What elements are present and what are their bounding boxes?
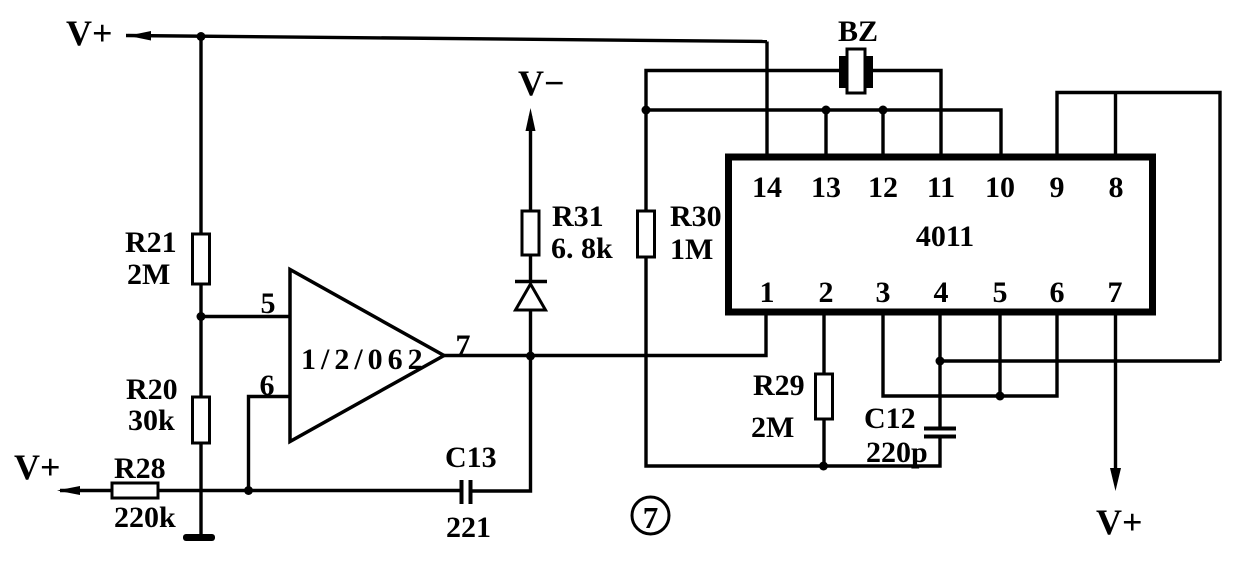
wire right rail to pin 4 node <box>940 359 1220 362</box>
diode D1 cathode bar <box>515 280 547 283</box>
svg-text:6: 6 <box>260 369 275 402</box>
wire V+ rail down to 4011 pin 14 <box>765 42 768 155</box>
wire from V+ rail down to R21 <box>199 37 202 235</box>
svg-text:6. 8k: 6. 8k <box>551 232 613 265</box>
svg-text:2M: 2M <box>751 411 794 444</box>
junction pin 12 <box>879 106 888 115</box>
wire pin 3 to pins 5 6 link <box>883 312 1057 396</box>
wire to pin 13 <box>824 110 827 154</box>
svg-text:2M: 2M <box>127 258 170 291</box>
wire diode to output node to C13 <box>472 310 531 491</box>
wire pin 2 to R29 <box>822 312 825 374</box>
svg-text:8: 8 <box>1109 171 1124 204</box>
svg-text:13: 13 <box>811 171 841 204</box>
svg-text:3: 3 <box>876 276 891 309</box>
junction pin 4 line <box>936 357 945 366</box>
resistor R31 <box>522 211 539 255</box>
svg-text:1: 1 <box>760 276 775 309</box>
wire R21 to R20 <box>199 284 202 397</box>
svg-text:11: 11 <box>927 171 955 204</box>
svg-text:5: 5 <box>261 287 276 320</box>
wire R28 to C13 <box>158 489 460 492</box>
wire pin 5 down <box>998 312 1001 396</box>
svg-text:6: 6 <box>1050 276 1065 309</box>
wire pin 7 to V+ with down arrowhead <box>1110 312 1121 491</box>
wire BZ right to 4011 pin 11 <box>872 71 941 155</box>
junction R30 line with 4011 inputs rail <box>642 106 651 115</box>
svg-text:10: 10 <box>985 171 1015 204</box>
resistor R29 <box>816 374 833 419</box>
junction pin 5 <box>996 392 1005 401</box>
svg-text:BZ: BZ <box>838 15 878 48</box>
svg-text:9: 9 <box>1050 171 1065 204</box>
wire V− with up arrowhead <box>526 108 536 211</box>
svg-text:C12: C12 <box>864 402 916 435</box>
svg-text:4: 4 <box>934 276 949 309</box>
buzzer BZ <box>839 49 873 93</box>
IC U2 4011 body <box>729 157 1153 312</box>
junction on V+ rail <box>197 32 206 41</box>
svg-text:R21: R21 <box>125 226 177 259</box>
ground <box>183 534 215 541</box>
svg-text:R28: R28 <box>114 452 166 485</box>
svg-text:V−: V− <box>518 63 565 103</box>
wire V+ feed with left arrowhead <box>57 486 112 495</box>
svg-text:220p: 220p <box>866 436 928 469</box>
svg-text:R31: R31 <box>552 200 604 233</box>
resistor R30 <box>638 211 655 257</box>
svg-text:12: 12 <box>868 171 898 204</box>
figure number circled 7 <box>632 497 669 535</box>
junction pin 13 <box>822 106 831 115</box>
svg-text:C13: C13 <box>445 441 497 474</box>
wire rail to pins 13 12 10 <box>646 110 1001 154</box>
wire R31 to diode <box>529 255 532 282</box>
wire R30 bottom to R29/C12 bottom rail <box>646 257 940 466</box>
junction at pin5 tap <box>197 312 206 321</box>
svg-text:V+: V+ <box>1096 502 1143 542</box>
junction R29 bottom <box>819 462 828 471</box>
svg-text:R30: R30 <box>670 200 722 233</box>
svg-text:220k: 220k <box>114 501 176 534</box>
junction output with diode branch <box>526 352 535 361</box>
svg-text:R20: R20 <box>126 373 178 406</box>
svg-text:7: 7 <box>643 500 659 535</box>
wire to pin 12 <box>881 110 884 154</box>
svg-text:R29: R29 <box>753 369 805 402</box>
svg-text:V+: V+ <box>66 13 113 53</box>
resistor R20 <box>193 397 210 443</box>
svg-text:1M: 1M <box>670 233 713 266</box>
wire V+ top rail with left arrowhead <box>126 31 767 42</box>
svg-text:14: 14 <box>752 171 782 204</box>
svg-text:4011: 4011 <box>916 220 974 253</box>
capacitor C12 plates <box>924 429 956 437</box>
wire R20 to ground <box>199 443 202 535</box>
svg-text:5: 5 <box>993 276 1008 309</box>
svg-text:1/2/062: 1/2/062 <box>301 343 428 376</box>
wire to op-amp pin 5 <box>201 315 290 318</box>
junction at pin6 tap <box>244 486 253 495</box>
svg-text:30k: 30k <box>128 404 175 437</box>
svg-text:V+: V+ <box>14 447 61 487</box>
wire R29 to bottom rail <box>822 419 825 466</box>
wire R30 top branch to BZ <box>646 71 841 212</box>
resistor R21 <box>193 234 210 284</box>
svg-text:221: 221 <box>446 511 491 544</box>
wire up to op-amp pin 6 <box>249 397 291 491</box>
wire pin 4 to C12 <box>938 312 941 429</box>
op-amp U1 1/2/062 <box>290 270 444 442</box>
svg-text:2: 2 <box>819 276 834 309</box>
capacitor C13 plates <box>462 480 471 504</box>
wire pins 9 and 8 top link <box>1057 93 1220 362</box>
svg-text:7: 7 <box>1108 276 1123 309</box>
wire op-amp output to 4011 pin 1 <box>444 315 766 356</box>
resistor R28 <box>112 483 158 498</box>
diode D1 triangle <box>516 284 546 310</box>
